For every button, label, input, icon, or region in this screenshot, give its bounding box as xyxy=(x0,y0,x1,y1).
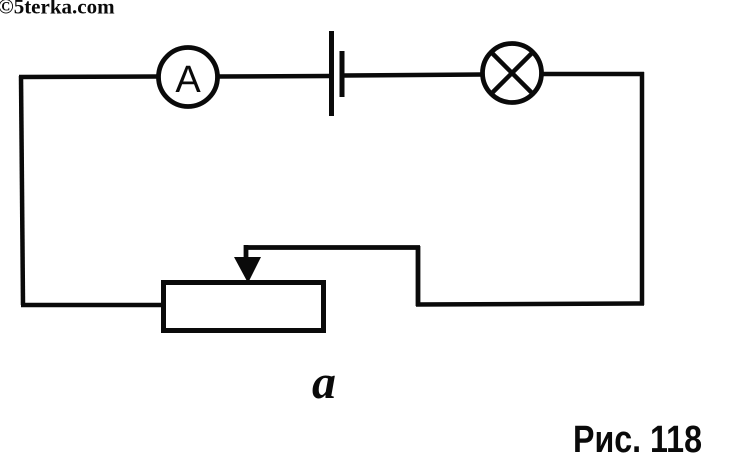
wire ammeter to battery xyxy=(217,74,330,79)
wire bottom-left (node to rheostat) xyxy=(21,303,163,308)
wire wiper horizontal xyxy=(244,245,420,250)
wire battery to lamp xyxy=(344,75,483,76)
wire top-left (node to ammeter) xyxy=(19,74,159,79)
svg-text:©5terka.com: ©5terka.com xyxy=(0,0,115,19)
wiper arrowhead xyxy=(234,257,261,283)
svg-text:a: a xyxy=(312,356,336,409)
battery long plate (+) xyxy=(329,31,334,116)
rheostat R box xyxy=(164,283,324,331)
wire lamp to right corner xyxy=(541,72,644,77)
svg-text:Рис. 118: Рис. 118 xyxy=(573,419,702,461)
wire arrow stem xyxy=(244,245,249,262)
wire wiper vertical riser xyxy=(416,246,421,306)
wire left vertical xyxy=(21,76,23,305)
wire bottom-right xyxy=(416,304,644,305)
svg-text:A: A xyxy=(175,59,201,101)
ammeter A xyxy=(159,48,218,107)
wire right vertical xyxy=(640,72,645,305)
battery short plate (-) xyxy=(340,51,345,97)
lamp L xyxy=(483,44,542,103)
